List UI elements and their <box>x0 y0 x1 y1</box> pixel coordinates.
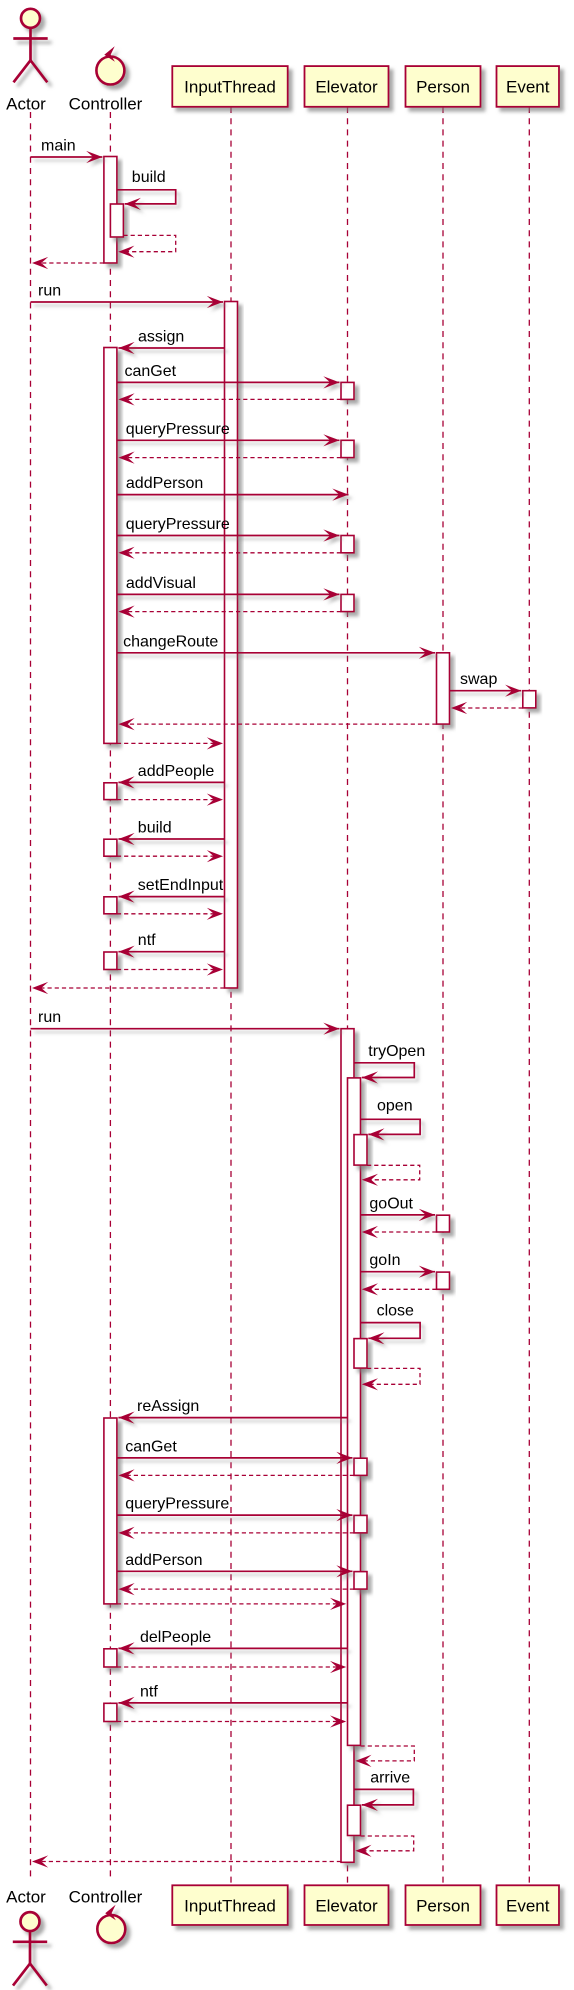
message goOut Elevator-&gt;Person <box>361 1195 436 1221</box>
message canGet Controller-&gt;Elevator <box>117 363 340 389</box>
message swap Person-&gt;Event <box>450 671 522 697</box>
message changeRoute Controller-&gt;Person <box>117 633 435 659</box>
svg-text:Controller: Controller <box>69 1888 143 1907</box>
svg-text:run: run <box>38 1009 61 1026</box>
svg-text:build: build <box>132 169 166 186</box>
svg-text:Controller: Controller <box>69 95 143 114</box>
activation InputThread run <box>225 302 238 989</box>
svg-text:queryPressure: queryPressure <box>126 516 230 533</box>
svg-text:delPeople: delPeople <box>140 1629 211 1646</box>
svg-text:build: build <box>138 820 172 837</box>
participant Elevator (top box) <box>305 66 389 107</box>
return run InputThread-&gt;Actor <box>32 982 225 994</box>
activation Elevator close (nested2) <box>354 1339 367 1369</box>
return addPerson2 Elevator-&gt;Controller <box>118 1583 354 1595</box>
svg-text:canGet: canGet <box>125 363 177 380</box>
return assign Controller-&gt;InputThread <box>117 737 223 749</box>
activation Person changeRoute <box>437 653 450 724</box>
svg-text:run: run <box>38 283 61 300</box>
svg-text:arrive: arrive <box>370 1770 410 1787</box>
message run2 Actor-&gt;Elevator <box>31 1009 340 1035</box>
message addPerson2 Controller-&gt;Elevator <box>117 1552 353 1578</box>
svg-text:Actor: Actor <box>6 95 46 114</box>
activation Controller build (nested) <box>110 204 123 237</box>
svg-text:swap: swap <box>460 671 497 688</box>
svg-text:addPerson: addPerson <box>126 475 203 492</box>
lifeline Controller <box>109 112 111 1881</box>
participant Elevator (bottom box) <box>305 1885 389 1925</box>
control Controller (bottom icon) <box>97 1905 125 1943</box>
svg-text:Person: Person <box>416 1897 470 1916</box>
message run Actor-&gt;InputThread <box>31 283 224 309</box>
lifeline Event <box>528 107 530 1885</box>
activation Elevator addVisual <box>341 594 354 611</box>
svg-text:close: close <box>377 1303 414 1320</box>
svg-text:goIn: goIn <box>369 1252 400 1269</box>
activation Controller main <box>104 157 117 264</box>
svg-text:Person: Person <box>416 78 470 97</box>
message setEndInput InputThread-&gt;Controller <box>118 877 224 903</box>
return ntf Controller-&gt;InputThread <box>117 963 223 975</box>
lifeline InputThread <box>230 107 232 1885</box>
message build2 InputThread-&gt;Controller <box>118 820 224 846</box>
message queryPressure3 Controller-&gt;Elevator <box>117 1496 353 1522</box>
svg-text:Actor: Actor <box>6 1888 46 1907</box>
activation Elevator queryPressure2 <box>341 536 354 553</box>
return canGet2 Elevator-&gt;Controller <box>118 1469 354 1481</box>
message canGet2 Controller-&gt;Elevator <box>117 1438 353 1464</box>
activation Controller setEndInput <box>104 897 117 914</box>
activation Elevator addPerson2 (nested2) <box>354 1572 367 1590</box>
svg-text:changeRoute: changeRoute <box>123 633 218 650</box>
return setEndInput Controller-&gt;InputThread <box>117 908 223 920</box>
svg-text:ntf: ntf <box>138 932 156 949</box>
activation Elevator queryPressure3 (nested2) <box>354 1515 367 1533</box>
svg-text:canGet: canGet <box>125 1438 177 1455</box>
svg-text:setEndInput: setEndInput <box>138 877 224 894</box>
message addPerson Controller-&gt;Elevator <box>117 475 349 501</box>
activation Controller assign <box>104 348 117 744</box>
return of build (self) <box>118 235 176 257</box>
message assign InputThread-&gt;Controller <box>118 329 224 355</box>
activation Controller delPeople <box>104 1649 117 1667</box>
activation Controller ntf <box>104 952 117 970</box>
return queryPressure Elevator-&gt;Controller <box>118 452 341 464</box>
participant InputThread (bottom box) <box>172 1885 287 1925</box>
participant Event (bottom box) <box>497 1885 560 1925</box>
activation Elevator queryPressure <box>341 440 354 457</box>
return goOut Person-&gt;Elevator <box>362 1226 437 1238</box>
return delPeople Controller-&gt;Elevator <box>117 1661 346 1673</box>
participant InputThread (top box) <box>172 66 287 107</box>
return goIn Person-&gt;Elevator <box>362 1283 437 1295</box>
return addPeople Controller-&gt;InputThread <box>117 794 223 806</box>
return canGet Elevator-&gt;Controller <box>118 393 341 405</box>
activation Person goIn <box>437 1272 450 1289</box>
svg-text:addPerson: addPerson <box>125 1552 202 1569</box>
message main Actor-&gt;Controller <box>31 138 103 164</box>
participant Person (bottom box) <box>406 1885 481 1925</box>
activation Elevator tryOpen (nested) <box>348 1078 361 1746</box>
message arrive (self Elevator) <box>354 1770 413 1811</box>
return run2 Elevator-&gt;Actor <box>32 1855 341 1867</box>
message addVisual Controller-&gt;Elevator <box>117 575 340 601</box>
lifeline Actor <box>30 112 32 1881</box>
activation Elevator canGet2 (nested2) <box>354 1458 367 1475</box>
message ntf InputThread-&gt;Controller <box>118 932 224 958</box>
message open (self Elevator) <box>361 1098 421 1141</box>
svg-text:reAssign: reAssign <box>137 1398 199 1415</box>
return of open (self) <box>362 1165 420 1186</box>
participant Person (top box) <box>406 66 481 107</box>
svg-text:Event: Event <box>506 78 550 97</box>
return Controller-&gt;Actor <box>32 257 104 269</box>
activation Controller ntf2 <box>104 1703 117 1721</box>
activation Event swap <box>523 691 536 708</box>
message queryPressure Controller-&gt;Elevator <box>117 421 340 447</box>
lifeline Elevator <box>347 107 349 1885</box>
return addVisual Elevator-&gt;Controller <box>118 606 341 618</box>
message ntf2 Elevator-&gt;Controller <box>118 1683 347 1709</box>
svg-text:goOut: goOut <box>369 1195 413 1212</box>
participant Event (top box) <box>497 66 560 107</box>
activation Elevator canGet <box>341 382 354 399</box>
message goIn Elevator-&gt;Person <box>361 1252 436 1278</box>
activation Elevator arrive (nested) <box>348 1805 361 1835</box>
svg-text:InputThread: InputThread <box>184 1897 276 1916</box>
return of arrive (self) <box>355 1836 413 1857</box>
actor Actor (bottom icon) <box>13 1912 47 1986</box>
activation Controller build2 <box>104 839 117 856</box>
svg-text:main: main <box>41 138 76 155</box>
svg-text:assign: assign <box>138 329 184 346</box>
activation Person goOut <box>437 1215 450 1232</box>
message close (self Elevator) <box>361 1303 421 1345</box>
svg-text:addPeople: addPeople <box>138 763 215 780</box>
message tryOpen (self Elevator) <box>354 1043 425 1084</box>
activation Controller reAssign <box>104 1418 117 1604</box>
return build2 Controller-&gt;InputThread <box>117 850 223 862</box>
return swap Event-&gt;Person <box>451 702 523 714</box>
svg-text:Elevator: Elevator <box>315 1897 378 1916</box>
svg-text:queryPressure: queryPressure <box>125 1496 229 1513</box>
activation Controller addPeople <box>104 783 117 800</box>
svg-text:Event: Event <box>506 1897 550 1916</box>
svg-text:ntf: ntf <box>140 1683 158 1700</box>
svg-text:tryOpen: tryOpen <box>368 1043 425 1060</box>
return changeRoute Person-&gt;Controller <box>118 718 436 730</box>
message reAssign Elevator-&gt;Controller <box>118 1398 347 1424</box>
svg-text:queryPressure: queryPressure <box>126 421 230 438</box>
return queryPressure3 Elevator-&gt;Controller <box>118 1527 354 1539</box>
svg-text:open: open <box>377 1098 413 1115</box>
control Controller (top icon) <box>96 46 124 84</box>
activation Elevator run <box>341 1029 354 1863</box>
return ntf2 Controller-&gt;Elevator <box>117 1715 346 1727</box>
message delPeople Elevator-&gt;Controller <box>118 1629 347 1655</box>
message addPeople InputThread-&gt;Controller <box>118 763 224 789</box>
svg-text:addVisual: addVisual <box>126 575 196 592</box>
return of close (self) <box>362 1368 420 1390</box>
svg-text:InputThread: InputThread <box>184 78 276 97</box>
svg-text:Elevator: Elevator <box>315 78 378 97</box>
activation Elevator open (nested2) <box>354 1135 367 1166</box>
return queryPressure2 Elevator-&gt;Controller <box>118 547 341 559</box>
message queryPressure2 Controller-&gt;Elevator <box>117 516 340 542</box>
lifeline Person <box>442 107 444 1885</box>
return of tryOpen (self) <box>355 1746 414 1767</box>
return reAssign Controller-&gt;Elevator <box>117 1598 346 1610</box>
message build (self Controller) <box>117 169 176 210</box>
actor Actor (top icon) <box>13 9 47 83</box>
